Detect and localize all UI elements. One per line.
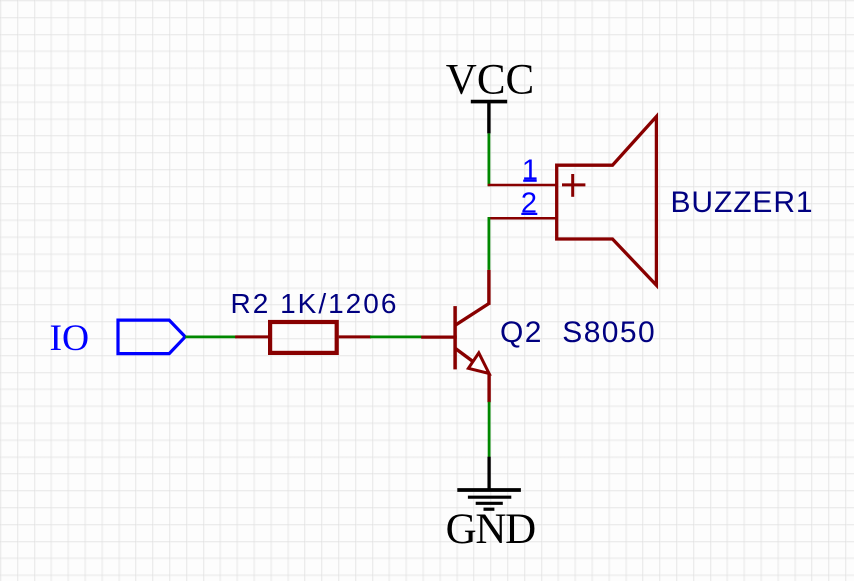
wire transistor emitter to ground [488, 402, 491, 457]
transistor Q2 [421, 270, 489, 402]
buzzer pin 1 wire [488, 184, 557, 187]
svg-text:IO: IO [50, 318, 90, 359]
buzzer pin 2 wire [488, 217, 557, 220]
resistor R2 [235, 322, 371, 353]
label BUZZER1 [671, 186, 814, 219]
pin number 2 [521, 187, 537, 219]
svg-text:Q2 S8050: Q2 S8050 [500, 316, 656, 349]
label Q2 S8050 [500, 316, 656, 349]
wire buzzer pin 2 down [487, 217, 490, 270]
ground [446, 457, 536, 553]
label R2 1K/1206 [231, 288, 399, 319]
buzzer BUZZER1 [557, 117, 657, 286]
wire VCC to buzzer pin 1 [487, 133, 490, 186]
wire IO to resistor [185, 335, 236, 338]
wire resistor to transistor base [370, 335, 422, 338]
power symbol VCC [446, 57, 534, 134]
svg-text:VCC: VCC [446, 57, 534, 104]
pin number 1 [522, 155, 538, 187]
svg-text:BUZZER1: BUZZER1 [671, 186, 814, 219]
svg-text:R2 1K/1206: R2 1K/1206 [231, 288, 399, 319]
net port IO [50, 318, 186, 359]
svg-text:GND: GND [446, 506, 536, 553]
